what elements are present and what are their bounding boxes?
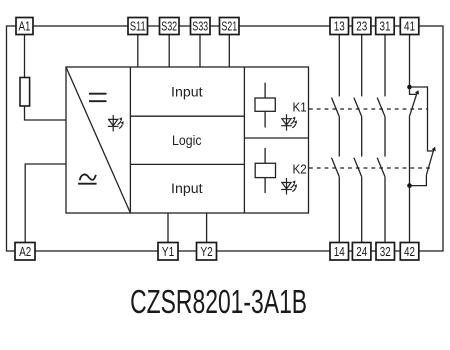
wire between contacts 13-14	[338, 117, 340, 157]
wire 23 to contact	[361, 35, 363, 97]
fuse F1	[20, 78, 30, 107]
NO contact K1 (13-14)	[332, 98, 340, 117]
terminal 14	[330, 243, 349, 261]
terminal A2	[15, 243, 35, 261]
svg-text:S21: S21	[221, 20, 237, 34]
NO contact K2 (13-14)	[332, 158, 340, 177]
wire S33 to input	[199, 35, 201, 68]
NC contact K1 arm (41-42 branch A)	[409, 92, 417, 116]
wire Y1 to logic	[167, 213, 169, 243]
svg-text:23: 23	[356, 20, 367, 34]
coil K2	[255, 148, 275, 193]
NO contact K2 (23-24)	[354, 158, 362, 177]
wire branch A down to junction	[409, 117, 411, 186]
terminal S11	[128, 18, 148, 35]
svg-text:31: 31	[380, 20, 391, 34]
NC contact K1 arm arrowhead	[415, 90, 419, 95]
logic / relay divider	[243, 67, 245, 213]
svg-text:32: 32	[380, 245, 391, 259]
wire contact to 32	[384, 177, 386, 243]
wire contact to 24	[361, 177, 363, 243]
terminal Y2	[197, 243, 217, 261]
wire S11 to input	[137, 35, 139, 68]
terminal 13	[330, 18, 349, 35]
LED D2 (K1)	[281, 114, 297, 131]
divider relay K1/K2	[244, 137, 308, 139]
wire 41 to junction	[409, 35, 411, 88]
NC contact K2 arm (41-42 branch B)	[426, 149, 434, 175]
svg-text:42: 42	[404, 245, 415, 259]
NO contact K1 (23-24)	[354, 98, 362, 117]
terminal Y1	[158, 243, 178, 261]
svg-text:Input: Input	[171, 84, 203, 99]
svg-text:S33: S33	[192, 20, 208, 34]
device outline (terminal rails)	[7, 26, 444, 251]
terminal 24	[352, 243, 371, 261]
wire S21 to input	[228, 35, 230, 68]
AC symbol (tilde with bar)	[78, 174, 97, 183]
svg-text:S11: S11	[130, 20, 146, 34]
terminal 23	[352, 18, 371, 35]
junction node top (41 branch)	[407, 85, 412, 90]
power supply diagonal divider	[66, 67, 130, 213]
divider logic/input	[130, 163, 244, 165]
NO contact K1 (31-32)	[377, 98, 385, 117]
LED D3 (K2)	[281, 178, 297, 195]
terminal 31	[376, 18, 395, 35]
NO contact K2 (31-32)	[377, 158, 385, 177]
wire Y2 to logic	[206, 213, 208, 243]
svg-text:Y2: Y2	[200, 245, 213, 259]
power / logic divider	[129, 67, 131, 213]
terminal S32	[160, 18, 180, 35]
svg-text:Input: Input	[171, 181, 203, 196]
svg-text:K2: K2	[293, 163, 307, 177]
wire junction to 42	[409, 186, 411, 243]
NC contact K2 arm arrowhead	[432, 147, 436, 152]
svg-text:CZSR8201-3A1B: CZSR8201-3A1B	[130, 283, 307, 320]
divider input/logic	[130, 115, 244, 117]
wire S32 to input	[168, 35, 170, 68]
wire 13 to contact	[338, 35, 340, 97]
wire between contacts 31-32	[384, 117, 386, 157]
wire contact to 14	[338, 177, 340, 243]
terminal 32	[376, 243, 395, 261]
svg-text:Y1: Y1	[162, 245, 175, 259]
terminal S33	[191, 18, 211, 35]
wire between contacts 23-24	[361, 117, 363, 157]
svg-text:13: 13	[334, 20, 345, 34]
svg-text:S32: S32	[161, 20, 177, 34]
svg-text:A1: A1	[19, 20, 31, 34]
junction node bottom (42 branch)	[407, 183, 412, 188]
wire branch B + NC contact K2 seat (41-42)	[410, 87, 435, 151]
wire 31 to contact	[384, 35, 386, 97]
LED D1 (power block)	[108, 115, 124, 131]
wire A2 to power supply input	[25, 164, 66, 243]
NC contact K1 seat (41-42 branch A)	[410, 87, 417, 94]
wire A1 to fuse to power supply input	[25, 35, 67, 121]
terminal 41	[400, 18, 419, 35]
terminal 42	[400, 243, 419, 261]
svg-text:41: 41	[404, 20, 415, 34]
wire branch B to junction	[410, 175, 427, 186]
mechanical link K2 (dashed)	[309, 167, 431, 169]
terminal A1	[16, 18, 33, 35]
svg-text:14: 14	[334, 245, 345, 259]
function block outline	[66, 67, 309, 213]
svg-text:A2: A2	[19, 245, 31, 259]
svg-text:24: 24	[356, 245, 367, 259]
terminal S21	[220, 18, 240, 35]
mechanical link K1 (dashed)	[309, 108, 428, 110]
DC symbol (=)	[89, 94, 107, 102]
svg-text:K1: K1	[293, 101, 307, 115]
coil K1	[255, 83, 275, 128]
svg-text:Logic: Logic	[172, 133, 202, 148]
